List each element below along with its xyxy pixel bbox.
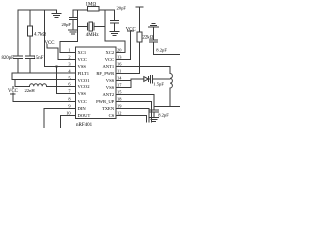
svg-text:9: 9 bbox=[68, 103, 71, 108]
capacitor C 1.5pF series bbox=[149, 75, 170, 83]
svg-text:VCC: VCC bbox=[126, 27, 136, 32]
svg-text:1.5pF: 1.5pF bbox=[153, 82, 164, 87]
svg-text:VCC: VCC bbox=[78, 99, 87, 104]
svg-text:VCC: VCC bbox=[105, 57, 114, 62]
VCC terminal right bbox=[116, 31, 133, 60]
svg-text:VCO1: VCO1 bbox=[78, 78, 91, 83]
capacitor C 820pF branch bbox=[14, 10, 23, 73]
svg-text:FILT1: FILT1 bbox=[78, 71, 90, 76]
wire DIN pin 9 bbox=[44, 109, 75, 128]
svg-text:20pF: 20pF bbox=[62, 22, 72, 27]
svg-text:8.2pF: 8.2pF bbox=[158, 112, 169, 117]
svg-text:1MΩ: 1MΩ bbox=[86, 3, 97, 8]
svg-text:20: 20 bbox=[117, 47, 122, 52]
wire antenna lower rail bbox=[154, 106, 180, 108]
wire pin4-pin5 left tie bbox=[11, 73, 13, 80]
svg-text:2: 2 bbox=[68, 54, 70, 59]
IC U1 nRF401 body bbox=[76, 47, 117, 119]
svg-text:4.7kΩ: 4.7kΩ bbox=[34, 32, 46, 37]
wire pin 5 VCO1 bbox=[12, 79, 76, 81]
svg-text:VSS: VSS bbox=[78, 91, 87, 96]
svg-text:XC2: XC2 bbox=[106, 50, 115, 55]
svg-text:DIN: DIN bbox=[78, 106, 87, 111]
svg-text:20pF: 20pF bbox=[117, 6, 127, 11]
svg-text:XC1: XC1 bbox=[78, 50, 87, 55]
svg-text:VCC: VCC bbox=[78, 57, 87, 62]
svg-text:ANT1: ANT1 bbox=[102, 64, 114, 69]
svg-text:8: 8 bbox=[68, 96, 71, 101]
svg-text:1: 1 bbox=[68, 47, 70, 52]
svg-text:10: 10 bbox=[66, 110, 71, 115]
svg-text:4MHz: 4MHz bbox=[86, 33, 100, 38]
wire pin5-coil left tie bbox=[14, 80, 16, 87]
node junction pin3/pin7 tie bbox=[55, 65, 57, 67]
capacitor C 20pF right with ground bbox=[110, 10, 119, 36]
pin numbers left bbox=[66, 47, 71, 115]
svg-text:TXEN: TXEN bbox=[102, 106, 115, 111]
wire FILT1 node to pin 4 bbox=[12, 72, 76, 74]
wire XC1 jog to pin 1 bbox=[60, 41, 78, 52]
wire ANT1 bbox=[116, 67, 170, 74]
svg-text:18: 18 bbox=[117, 96, 122, 101]
resistor R 22k with top bar bbox=[116, 7, 143, 73]
wire ANT2 to cap bbox=[116, 95, 154, 111]
svg-text:13: 13 bbox=[117, 54, 122, 59]
resistor R 1M horizontal bbox=[88, 6, 100, 11]
wire top-left ground rail bbox=[18, 9, 56, 11]
inductor L 22nH on VCO2 line bbox=[15, 84, 76, 87]
svg-text:820pF: 820pF bbox=[2, 56, 15, 61]
svg-text:15: 15 bbox=[117, 89, 122, 94]
svg-text:22nH: 22nH bbox=[25, 88, 36, 93]
svg-text:12: 12 bbox=[117, 110, 121, 115]
ground sideways triangle on VSS net bbox=[131, 77, 149, 82]
svg-text:VCO2: VCO2 bbox=[78, 84, 91, 89]
ground GND1 top-left bbox=[52, 10, 61, 18]
svg-text:3: 3 bbox=[68, 61, 71, 66]
pin names left bbox=[78, 50, 91, 118]
wire top crystal rail bbox=[73, 9, 88, 11]
svg-text:7: 7 bbox=[68, 88, 71, 93]
svg-text:VSS: VSS bbox=[106, 78, 115, 83]
capacitor C 15nF (series with 4.7k) bbox=[26, 56, 35, 73]
wire VSS pins 14/17 tie bbox=[116, 81, 131, 88]
pin numbers right bbox=[117, 47, 122, 115]
capacitor C 20pF left with ground bbox=[69, 10, 78, 34]
svg-text:15nF: 15nF bbox=[34, 56, 44, 61]
svg-text:PWR_UP: PWR_UP bbox=[96, 99, 115, 104]
svg-text:19: 19 bbox=[117, 103, 122, 108]
svg-text:nRF401: nRF401 bbox=[76, 123, 93, 128]
svg-text:16: 16 bbox=[117, 61, 122, 66]
svg-text:6: 6 bbox=[68, 81, 71, 86]
resistor R 4.7k branch bbox=[28, 10, 33, 56]
svg-text:VSS: VSS bbox=[106, 85, 115, 90]
svg-text:14: 14 bbox=[117, 75, 122, 80]
svg-text:ANT2: ANT2 bbox=[102, 92, 114, 97]
inductor L antenna coil bbox=[170, 74, 172, 107]
wire VSS drop to pin 3 bbox=[44, 10, 46, 67]
svg-text:17: 17 bbox=[117, 82, 122, 87]
svg-text:DOUT: DOUT bbox=[78, 113, 91, 118]
wire pin 8 VCC bbox=[13, 101, 76, 103]
svg-text:11: 11 bbox=[117, 68, 121, 73]
wire pin 7 VSS bbox=[57, 93, 76, 95]
svg-text:CS: CS bbox=[109, 113, 115, 118]
svg-text:VCC: VCC bbox=[8, 89, 18, 94]
svg-text:8.2pF: 8.2pF bbox=[156, 47, 167, 52]
svg-text:RF_PWR: RF_PWR bbox=[96, 71, 115, 76]
svg-text:VSS: VSS bbox=[78, 64, 87, 69]
capacitor C 8.2pF with inverted ground above bbox=[149, 24, 180, 55]
svg-text:VCC: VCC bbox=[45, 41, 55, 46]
wire PWR_UP bbox=[116, 102, 151, 123]
capacitor C 8.2pF bottom with ground bbox=[150, 110, 159, 121]
wire XC2 drop bbox=[104, 10, 106, 41]
crystal X1 4MHz bbox=[78, 10, 105, 41]
wire VCC to pin 2 bbox=[47, 45, 76, 60]
wire CS bbox=[116, 116, 146, 123]
pin names right bbox=[96, 50, 115, 118]
wire TXEN bbox=[116, 109, 149, 123]
svg-text:22kΩ: 22kΩ bbox=[143, 36, 154, 41]
VCC terminal lower-left bbox=[11, 86, 15, 101]
wire DOUT pin 10 bbox=[60, 116, 75, 128]
